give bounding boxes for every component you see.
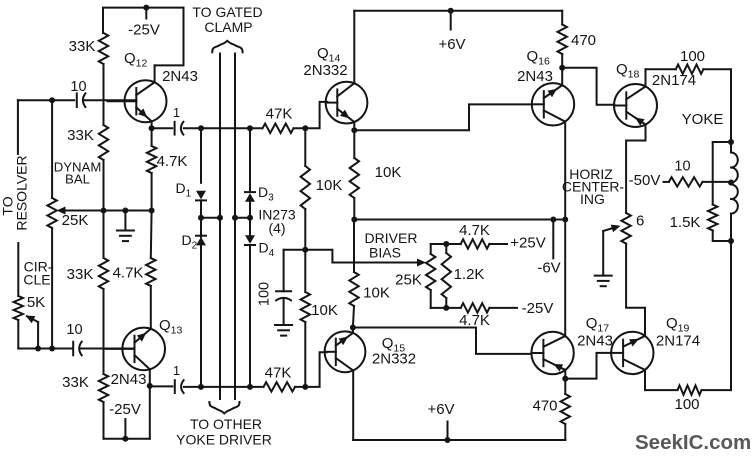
svg-text:D4: D4 xyxy=(259,240,275,260)
svg-text:10: 10 xyxy=(66,322,82,338)
wire: D1/D2 column xyxy=(200,128,202,183)
wire: far left vertical to TO RESOLVER xyxy=(17,100,19,154)
wire: circle 5K column xyxy=(17,243,19,296)
svg-text:CLAMP: CLAMP xyxy=(204,19,252,35)
transistor Q18 2N174 xyxy=(614,84,657,127)
top +6V rail xyxy=(354,10,562,12)
wire: resolver input to Q12 base xyxy=(18,99,74,101)
svg-text:100: 100 xyxy=(680,48,705,65)
transistor Q19 2N174 xyxy=(611,332,653,374)
resistor 10 (yoke feed) xyxy=(664,181,669,183)
wiper arrow of 25K pot xyxy=(60,210,104,212)
capacitor 100 (vertical) xyxy=(276,290,291,292)
resistor 47K (lower) xyxy=(264,382,296,391)
svg-text:1: 1 xyxy=(173,363,180,378)
wire: gated clamp bus line 2 xyxy=(234,54,236,400)
svg-text:Q16: Q16 xyxy=(527,48,551,68)
wire: Q19 emitter to 100 resistor xyxy=(645,389,678,391)
resistor 100 (bottom right) xyxy=(678,385,702,394)
resistor 10K (Q15 collector) xyxy=(353,220,355,273)
bottom left -25V rail xyxy=(104,438,150,440)
svg-text:YOKE DRIVER: YOKE DRIVER xyxy=(176,432,272,448)
svg-text:25K: 25K xyxy=(62,212,89,229)
node: Q17 emitter xyxy=(562,376,568,382)
capacitor 10 (lower left) xyxy=(72,342,74,356)
svg-text:1.5K: 1.5K xyxy=(670,214,701,231)
svg-text:+25V: +25V xyxy=(510,235,545,252)
wire: 100 cap branch xyxy=(284,249,306,251)
svg-text:4.7K: 4.7K xyxy=(459,312,490,329)
potentiometer 6 (horiz centering) xyxy=(621,213,630,244)
resistor 4.7K (Q13 emitter) xyxy=(146,258,155,286)
brace (to gated clamp) xyxy=(212,41,242,52)
wire: Q12 emitter node xyxy=(149,125,155,131)
wire: 4.7K to wiper bus xyxy=(151,173,153,211)
svg-text:TO OTHER: TO OTHER xyxy=(190,416,262,432)
wire: Q14 emitter to Q16 base xyxy=(354,104,532,130)
bias top wire with 4.7K to +25V xyxy=(431,243,461,245)
resistor 470 (bottom) xyxy=(564,379,566,394)
ground (100 cap) xyxy=(275,324,292,326)
svg-text:33K: 33K xyxy=(67,266,94,283)
wire: Q18 collector to 100 resistor xyxy=(646,68,676,70)
svg-text:-6V: -6V xyxy=(537,260,560,277)
svg-text:RESOLVER: RESOLVER xyxy=(14,155,30,230)
svg-text:CLE: CLE xyxy=(23,272,50,288)
svg-text:33K: 33K xyxy=(62,374,89,391)
svg-text:6: 6 xyxy=(636,213,644,230)
node: -25V stub top left xyxy=(145,8,147,19)
resistor 33K (top left upper) xyxy=(99,33,108,64)
resistor 33K (left, second) xyxy=(99,125,108,160)
svg-text:Q12: Q12 xyxy=(124,50,148,70)
mid bus wire xyxy=(354,219,565,221)
bias bottom wire with 4.7K to -25V xyxy=(431,307,461,309)
wire: top-left -25V rail xyxy=(103,8,184,33)
svg-text:YOKE: YOKE xyxy=(682,111,724,128)
svg-text:10K: 10K xyxy=(363,285,390,302)
svg-text:470: 470 xyxy=(532,398,557,415)
svg-text:-25V: -25V xyxy=(128,22,160,39)
diode bus segment right xyxy=(235,217,250,219)
capacitor 1 (Q13 output) xyxy=(150,385,173,387)
potentiometer 25K (dynam bal) xyxy=(47,198,56,228)
svg-text:100: 100 xyxy=(257,282,273,306)
node: Q16 collector / 470 xyxy=(559,65,565,71)
diode bus segment left xyxy=(201,217,220,219)
node: yoke center tap xyxy=(728,180,734,186)
wire: Q17 emitter to Q19 base jog xyxy=(565,353,611,379)
resistor 470 (top) xyxy=(561,11,563,25)
node: Q16 emitter to mid bus xyxy=(562,217,568,223)
svg-text:2N43: 2N43 xyxy=(162,68,198,85)
wire: right column down to Q19 emitter line xyxy=(730,241,732,390)
svg-text:470: 470 xyxy=(571,32,596,49)
svg-text:4.7K: 4.7K xyxy=(157,153,188,170)
transistor Q14 2N332 xyxy=(326,82,368,124)
svg-text:33K: 33K xyxy=(67,127,94,144)
resistor 10K (clamp node upper) xyxy=(304,128,306,166)
resistor 33K (fourth) xyxy=(99,374,108,402)
svg-text:1: 1 xyxy=(173,105,180,120)
svg-text:4.7K: 4.7K xyxy=(459,222,490,239)
node: clamp/cap node xyxy=(302,247,308,253)
svg-text:10K: 10K xyxy=(316,177,343,194)
svg-text:+6V: +6V xyxy=(438,36,465,53)
potentiometer 5K (circle) xyxy=(14,296,23,320)
diode D4 IN273 xyxy=(249,218,251,236)
bottom +6V rail xyxy=(353,439,565,441)
svg-text:4.7K: 4.7K xyxy=(113,265,144,282)
svg-text:10K: 10K xyxy=(375,164,402,181)
svg-text:2N332: 2N332 xyxy=(303,62,347,79)
resistor 1.5K (yoke damper) xyxy=(708,205,717,231)
svg-text:47K: 47K xyxy=(266,106,293,123)
yoke top wire to damping branch xyxy=(713,142,731,205)
svg-text:BIAS: BIAS xyxy=(369,245,401,261)
wire: 47K to Q14 base jog xyxy=(294,102,328,128)
node: yoke bottom xyxy=(728,238,734,244)
wire: 1.5K bottom to yoke bottom xyxy=(713,231,731,242)
wire: D3/D4 column xyxy=(249,128,251,190)
wire: pot bottom to Q19 collector jog xyxy=(626,244,645,335)
wire: 100 to right column xyxy=(702,389,732,391)
svg-text:D3: D3 xyxy=(258,184,274,204)
wire: 25K column upper xyxy=(51,100,53,198)
wire + resistor 33K column mid-lower xyxy=(103,211,105,259)
wiper of 6 pot xyxy=(603,227,617,231)
diode D1 IN273 xyxy=(196,191,206,200)
svg-text:2N43: 2N43 xyxy=(111,371,147,388)
brace (to other yoke driver) xyxy=(209,402,239,413)
svg-text:BAL: BAL xyxy=(65,172,90,187)
wire: Q16 collector to Q18 base jog xyxy=(562,68,614,105)
wire: gated clamp bus line 1 xyxy=(219,54,221,400)
svg-text:TO GATED: TO GATED xyxy=(192,4,262,20)
svg-text:-25V: -25V xyxy=(522,300,554,317)
wire: Q15 collector to Q17 base xyxy=(353,328,532,354)
resistor 100 (top right) xyxy=(676,65,704,74)
svg-text:2N332: 2N332 xyxy=(372,351,416,368)
svg-text:D1: D1 xyxy=(176,180,192,200)
resistor 4.7K (Q12 emitter) xyxy=(147,146,156,173)
svg-text:-25V: -25V xyxy=(109,401,141,418)
node: D3 column top xyxy=(247,125,253,131)
wire: Q13 base input xyxy=(18,348,72,350)
diode D2 IN273 xyxy=(200,218,202,237)
-6V stub xyxy=(552,220,554,259)
potentiometer 25K (driver bias) xyxy=(430,244,432,254)
resistor 10K (Q14 emitter) xyxy=(350,158,359,198)
svg-text:100: 100 xyxy=(674,396,699,413)
-25V stub bottom xyxy=(124,419,126,439)
svg-text:2N43: 2N43 xyxy=(517,68,553,85)
transistor Q13 2N43 xyxy=(122,328,165,371)
svg-text:2N174: 2N174 xyxy=(652,72,696,89)
svg-text:Q13: Q13 xyxy=(159,317,183,337)
wire: Q13 top column with 4.7K xyxy=(150,211,153,259)
transistor Q15 2N332 xyxy=(325,331,366,372)
wire: left column between 33K resistors xyxy=(103,64,105,125)
wire: Q18 emitter jog to centering pot xyxy=(626,141,645,214)
svg-text:Q18: Q18 xyxy=(616,61,640,81)
node: D1 column top xyxy=(198,125,204,131)
wire: 100 to yoke top xyxy=(703,69,731,142)
resistor 10K (clamp node lower) xyxy=(304,250,306,292)
wire: 47K to Q15 base jog xyxy=(295,352,327,387)
resistor 1.2K xyxy=(445,244,447,253)
transistor Q17 2N43 xyxy=(531,332,573,374)
svg-text:2N174: 2N174 xyxy=(656,333,700,350)
+6V stub top xyxy=(450,11,452,30)
transistor Q12 2N43 xyxy=(125,80,167,122)
svg-text:2N43: 2N43 xyxy=(577,333,613,350)
wire: Q14 emitter node xyxy=(351,127,357,133)
svg-text:(4): (4) xyxy=(268,220,285,236)
+6V stub bottom xyxy=(447,422,449,441)
svg-text:ING: ING xyxy=(580,191,605,207)
wire: 25K column lower xyxy=(51,228,53,349)
svg-text:+6V: +6V xyxy=(427,401,454,418)
svg-text:47K: 47K xyxy=(265,365,292,382)
wire: Q12 collector jog from rail xyxy=(155,8,184,66)
svg-text:10: 10 xyxy=(70,79,86,95)
capacitor 1 (Q12 output) xyxy=(152,127,173,129)
wiper of 5K pot xyxy=(37,322,39,349)
svg-text:5K: 5K xyxy=(27,294,45,311)
svg-text:SeekIC.com: SeekIC.com xyxy=(635,431,751,454)
svg-text:25K: 25K xyxy=(395,272,422,289)
inductor yoke coil xyxy=(730,142,732,153)
transistor Q16 2N43 xyxy=(532,83,574,125)
wire: Q13 collector to -25V rail xyxy=(149,386,151,439)
diode D3 IN273 xyxy=(245,193,255,202)
wire: wiper bus to ground and Q12 emitter leg xyxy=(104,210,152,212)
svg-text:1.2K: 1.2K xyxy=(454,266,485,283)
wire: left column to wiper bus xyxy=(103,160,105,211)
capacitor 10 (top left) xyxy=(76,93,78,107)
wire: bias tap jog to 25K wiper xyxy=(305,250,422,263)
svg-text:10: 10 xyxy=(674,159,690,175)
node: junction of 10 cap wire and 25K column xyxy=(49,97,55,103)
node: Q15 collector xyxy=(350,325,356,331)
ground (horiz centering) xyxy=(595,275,612,277)
resistor 47K (upper) xyxy=(263,124,294,133)
ground (dynam bal wiper bus) xyxy=(124,211,126,231)
svg-text:33K: 33K xyxy=(69,38,96,55)
svg-text:-50V: -50V xyxy=(629,172,661,189)
svg-text:10K: 10K xyxy=(311,302,338,319)
